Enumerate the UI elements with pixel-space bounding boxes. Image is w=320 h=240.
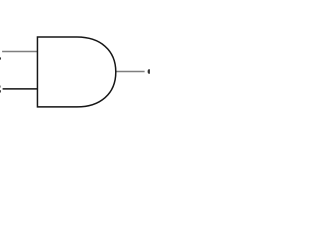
wire output (right, gray): [115, 71, 144, 73]
wire input B (bottom, black): [3, 88, 38, 90]
node label fragment, input B upper tip (left edge): [0, 86, 2, 88]
node label fragment, input B lower tip (left edge): [0, 90, 1, 92]
node label fragment, output (right edge): [148, 69, 150, 74]
wire input A (top, gray): [2, 51, 37, 53]
node label fragment, input A (left edge): [0, 57, 1, 59]
and-gate U1 body: [37, 37, 115, 107]
